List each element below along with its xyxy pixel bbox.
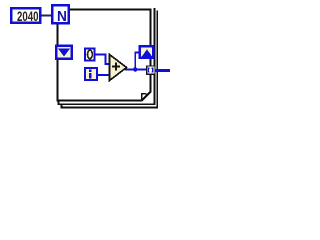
svg-text:N: N bbox=[57, 8, 67, 25]
svg-text:2040: 2040 bbox=[17, 9, 39, 24]
